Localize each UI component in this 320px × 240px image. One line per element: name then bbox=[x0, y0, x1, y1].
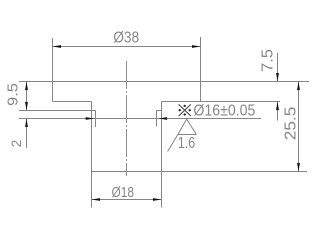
lip line right bbox=[157, 110, 162, 112]
bore wall stub left bbox=[95, 111, 97, 128]
svg-text:Ø16±0.05: Ø16±0.05 bbox=[193, 102, 255, 119]
reference mark bbox=[179, 104, 191, 116]
svg-text:9.5: 9.5 bbox=[6, 83, 22, 106]
dim line phi16 bbox=[19, 118, 261, 120]
arrow 25.5 down bbox=[297, 163, 300, 172]
dim line phi18 bbox=[92, 199, 162, 201]
tube outer wall right + extension down bbox=[161, 102, 163, 208]
dim line 2 tail bbox=[26, 119, 28, 148]
arrow phi16 right bbox=[159, 117, 168, 120]
lip line left with extension bbox=[19, 110, 96, 112]
bore wall stub right bbox=[156, 111, 158, 127]
svg-text:1.6: 1.6 bbox=[178, 135, 195, 152]
tube outer wall left + extension down bbox=[91, 102, 93, 208]
step surface right + extension bbox=[162, 101, 281, 103]
arrow phi16 left bbox=[86, 117, 95, 120]
arrow phi38 left bbox=[53, 45, 62, 48]
center line bbox=[126, 61, 128, 176]
arrow 9.5 down bbox=[25, 102, 28, 111]
flange left wall + extension up bbox=[52, 38, 54, 102]
surface finish triangle with tail bbox=[168, 119, 197, 152]
arrow phi18 right bbox=[153, 198, 162, 201]
svg-text:25.5: 25.5 bbox=[283, 107, 300, 141]
top surface line with extensions bbox=[19, 81, 309, 83]
svg-text:Ø38: Ø38 bbox=[113, 29, 139, 46]
arrow 9.5 up bbox=[25, 82, 28, 91]
svg-text:2: 2 bbox=[9, 140, 24, 148]
svg-text:7.5: 7.5 bbox=[259, 49, 276, 72]
arrow phi38 right bbox=[192, 45, 201, 48]
arrow phi18 left bbox=[92, 198, 101, 201]
step surface left bbox=[53, 101, 92, 103]
tube bottom edge with extension bbox=[92, 171, 308, 173]
dim line 25.5 bbox=[298, 82, 300, 172]
arrow 7.5 up bbox=[276, 102, 279, 111]
dim line 9.5 bbox=[26, 82, 28, 111]
arrow 25.5 up bbox=[297, 82, 300, 91]
dim line 7.5 lower bbox=[277, 102, 279, 121]
dim line 7.5 upper bbox=[277, 53, 279, 82]
arrow 7.5 down bbox=[276, 73, 279, 82]
arrow 2 up bbox=[25, 119, 28, 128]
dim line phi38 bbox=[53, 46, 201, 48]
svg-text:Ø18: Ø18 bbox=[112, 185, 135, 201]
flange right wall + extension up bbox=[200, 37, 202, 102]
